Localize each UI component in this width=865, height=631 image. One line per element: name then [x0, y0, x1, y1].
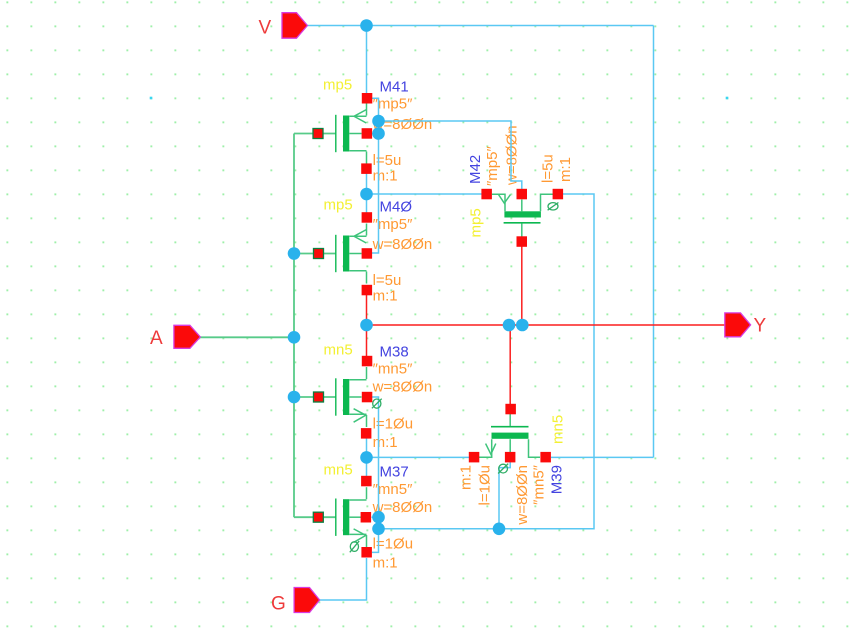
wire M41 source bulk stub [372, 98, 379, 121]
svg-text:M39: M39 [549, 465, 566, 494]
bulk glyph M38 [372, 399, 382, 409]
wire V rail [307, 25, 653, 27]
pin M41 bulk [362, 128, 373, 139]
gate pin M38 [314, 392, 324, 402]
pin M37 bulk [361, 512, 372, 523]
pin M42 gate [517, 236, 528, 247]
bulk glyph M42 [548, 203, 559, 211]
svg-text:mn5: mn5 [550, 415, 567, 444]
svg-text:w=8ØØn: w=8ØØn [372, 236, 433, 253]
transistor M39 (nmos mn5) [479, 414, 540, 457]
wire M37 source to G [320, 558, 367, 600]
wire output to M42 gate [521, 246, 523, 325]
junction A M40 gate [288, 247, 301, 260]
wire nwell bulk to M42 [379, 121, 522, 189]
wire V right drop [653, 26, 655, 458]
svg-text:M38: M38 [380, 343, 409, 360]
transistor M38 (nmos mn5) [336, 367, 367, 427]
pin M39 gate [505, 404, 516, 415]
junction M38-M37 node [360, 451, 373, 464]
pin M42 drain [553, 189, 564, 200]
junction Y M39 gate [503, 319, 516, 332]
pin M40 source [362, 212, 373, 223]
junction M37 bulk [372, 511, 385, 524]
svg-text:A: A [150, 328, 163, 349]
svg-text:″mn5″: ″mn5″ [373, 361, 413, 378]
gate pin M37 [313, 512, 323, 522]
svg-text:G: G [271, 594, 286, 615]
svg-text:M41: M41 [380, 79, 409, 96]
wire M38 source to node [366, 438, 368, 457]
gate pin M41 [313, 129, 323, 139]
wire A port to bus [200, 336, 294, 338]
wire M38 bulk stub [372, 397, 379, 529]
wire A vertical bus [293, 134, 295, 518]
pin M38 bulk [362, 392, 373, 403]
svg-text:m:1: m:1 [557, 157, 574, 182]
svg-text:mn5: mn5 [324, 462, 353, 479]
port A pin [174, 325, 200, 348]
svg-text:mp5: mp5 [323, 76, 352, 93]
junction Y M42 gate [516, 319, 529, 332]
bulk glyph M39 [498, 464, 508, 474]
svg-text:M42: M42 [467, 155, 484, 184]
pin M37 drain [361, 476, 372, 487]
svg-text:″mn5″: ″mn5″ [531, 464, 548, 504]
svg-text:l=5u: l=5u [540, 154, 557, 183]
pin M38 source [361, 428, 372, 439]
port Y pin [725, 313, 751, 337]
junction M41-M40 node [360, 188, 373, 201]
junction output node [360, 319, 373, 332]
junction V rail [360, 19, 373, 32]
junction nmos bulk rail [372, 523, 385, 536]
svg-text:M4Ø: M4Ø [380, 199, 413, 216]
pin M42 bulk [517, 189, 528, 200]
svg-text:l=5u: l=5u [373, 152, 402, 169]
port V pin [282, 13, 307, 39]
junction M41 bulk [372, 127, 385, 140]
svg-text:″mp5″: ″mp5″ [484, 146, 501, 186]
wire pmos bulk vertical [372, 121, 379, 253]
pin M37 source [361, 547, 372, 558]
pin M41 source [362, 93, 373, 104]
pin M39 drain [540, 452, 551, 463]
wire M37 bulk stub [372, 516, 379, 518]
svg-text:m:1: m:1 [373, 168, 398, 185]
svg-text:V: V [259, 18, 272, 39]
wire M39 bulk drop [499, 462, 510, 529]
wire M41 bulk stub [372, 133, 379, 135]
svg-text:mp5: mp5 [324, 197, 353, 214]
svg-text:Y: Y [754, 316, 767, 337]
junction pmos bulk top [372, 115, 385, 128]
svg-text:mp5: mp5 [468, 208, 485, 237]
junction M39 bulk rail [493, 523, 506, 536]
wire node to M37 drain [366, 457, 368, 478]
wire node to M40 source [366, 194, 368, 213]
svg-text:m:1: m:1 [373, 434, 398, 451]
svg-text:l=5u: l=5u [373, 272, 402, 289]
wire output rail Y [367, 324, 725, 326]
svg-text:m:1: m:1 [373, 554, 398, 571]
gate pin M40 [314, 249, 324, 259]
svg-text:l=1Øu: l=1Øu [477, 465, 494, 505]
pin M38 drain [362, 356, 373, 367]
svg-text:m:1: m:1 [373, 288, 398, 305]
svg-text:w=8ØØn: w=8ØØn [514, 465, 531, 526]
pin M41 drain [361, 163, 372, 174]
svg-text:w=8ØØn: w=8ØØn [372, 379, 433, 396]
pin M39 bulk [505, 452, 516, 463]
wire node to M39 source [367, 456, 470, 458]
wire node to M42 source [367, 193, 482, 195]
wire V to M41 source [366, 26, 368, 94]
wire M39 drain to V drop [551, 456, 654, 458]
wire A to M41 gate [294, 133, 336, 135]
port G pin [294, 588, 320, 613]
svg-text:M37: M37 [380, 464, 409, 481]
wire M41 drain to node [366, 173, 368, 194]
pin M42 source [481, 189, 492, 200]
bulk glyph M37 [350, 541, 359, 552]
grid major marker [726, 97, 729, 100]
transistor M42 (pmos mp5) [492, 194, 553, 237]
wire output to M39 gate [509, 325, 511, 404]
junction A port [288, 331, 301, 344]
junction A M38 gate [288, 391, 301, 404]
transistor M40 (pmos mp5) [336, 224, 367, 284]
wire A to M38 gate [294, 396, 336, 398]
transistor M41 (pmos mp5) [336, 104, 367, 164]
wire output to M38 drain [366, 325, 368, 356]
wire M42 drain [379, 194, 595, 529]
wire M40 drain to output [366, 295, 368, 325]
transistor M37 (nmos mn5) [336, 487, 367, 547]
wire M37 source bulk stub [372, 529, 379, 553]
grid major marker [150, 97, 153, 100]
pin M40 bulk [362, 248, 373, 259]
svg-text:mn5: mn5 [324, 341, 353, 358]
pin M40 drain [362, 285, 373, 296]
svg-text:m:1: m:1 [458, 465, 475, 490]
pin M39 source [469, 452, 480, 463]
wire A to M37 gate [294, 516, 336, 518]
svg-text:w=8ØØn: w=8ØØn [504, 125, 521, 186]
wire A to M40 gate [294, 253, 336, 255]
